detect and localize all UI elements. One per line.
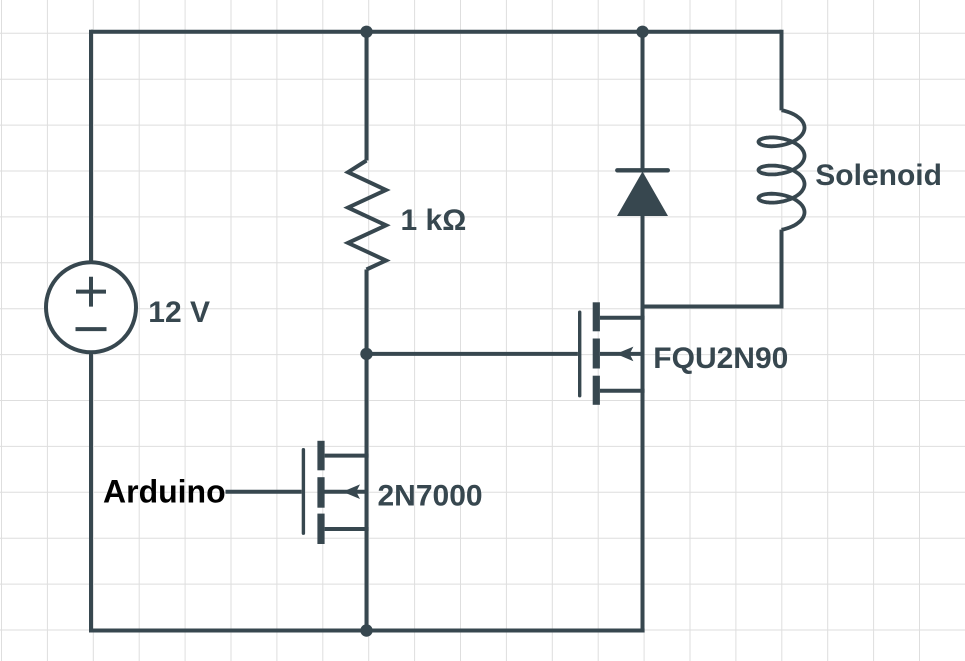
wire top rail xyxy=(91,30,782,34)
voltage source V1 12 V circle xyxy=(46,262,136,352)
Q1 channel bars xyxy=(593,302,600,405)
Q2 channel bars xyxy=(317,441,324,544)
wire gate net node to FQU2N90 gate xyxy=(367,352,578,356)
wire solenoid bottom lead xyxy=(780,230,784,307)
Q1 body arrow tail xyxy=(600,352,643,356)
svg-text:2N7000: 2N7000 xyxy=(378,480,483,513)
Q2 source stub xyxy=(325,527,369,531)
node junction dot top resistor xyxy=(360,26,372,38)
wire drain tee to solenoid bottom xyxy=(643,305,784,309)
Q1 body arrowhead xyxy=(616,347,633,362)
wire resistor branch upper xyxy=(365,32,369,161)
diode D1 cathode bar xyxy=(617,168,668,172)
transistor Q1 FQU2N90 gate line xyxy=(578,312,581,396)
Q2 drain stub xyxy=(325,454,369,458)
wire left rail lower xyxy=(89,352,93,632)
wire bottom rail xyxy=(91,629,645,633)
node junction dot top diode xyxy=(636,26,648,38)
wire resistor bottom to 2N7000 drain xyxy=(365,270,369,633)
svg-text:1 kΩ: 1 kΩ xyxy=(401,204,467,237)
wire solenoid top lead xyxy=(780,30,784,111)
resistor R1 1 kOhm zigzag xyxy=(348,161,386,270)
Q1 drain stub xyxy=(600,316,645,320)
wire Arduino to Q2 gate xyxy=(226,490,302,494)
wire left rail upper xyxy=(89,30,93,262)
svg-text:Solenoid: Solenoid xyxy=(815,159,942,192)
svg-text:12 V: 12 V xyxy=(148,296,210,329)
node junction dot gate net xyxy=(360,348,372,360)
voltage source minus sign xyxy=(76,327,107,331)
wire diode branch upper xyxy=(641,32,645,171)
Q1 source stub xyxy=(600,389,645,393)
svg-text:FQU2N90: FQU2N90 xyxy=(653,342,788,375)
transistor Q2 2N7000 gate line xyxy=(302,450,305,534)
voltage source plus sign xyxy=(76,277,106,307)
svg-text:Arduino: Arduino xyxy=(103,473,226,509)
wire diode anode down through drain to source xyxy=(641,216,645,633)
Q2 body arrowhead xyxy=(343,484,360,499)
diode D1 triangle xyxy=(617,172,668,217)
inductor L1 solenoid coil xyxy=(759,110,805,230)
node junction dot bottom xyxy=(360,624,372,636)
Q2 body arrow tail xyxy=(324,490,366,494)
